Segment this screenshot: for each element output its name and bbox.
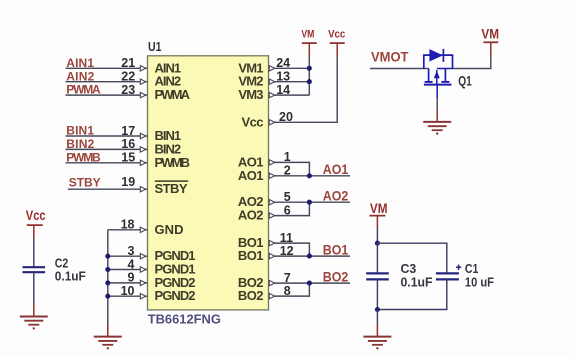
svg-text:BIN2: BIN2 — [66, 137, 94, 151]
svg-text:23: 23 — [121, 83, 135, 97]
wire pin24 VM1 — [269, 67, 310, 69]
svg-text:AIN2: AIN2 — [66, 69, 94, 83]
pin 6 — [269, 203, 291, 218]
IC U1 (TB6612FNG motor driver) body — [148, 56, 269, 310]
wire VMOT to Q1 source — [370, 68, 429, 70]
pin 18 — [121, 218, 146, 233]
wire junction to ground — [376, 310, 378, 324]
svg-text:AO2: AO2 — [323, 187, 349, 203]
wire pin2 AO1 net — [269, 175, 351, 177]
svg-text:VM: VM — [481, 26, 499, 41]
wire net STBY — [68, 188, 147, 190]
pin 3 — [128, 244, 146, 259]
svg-text:VM: VM — [301, 29, 314, 41]
U1 pin names (right column) — [238, 60, 264, 303]
svg-text:7: 7 — [284, 271, 291, 285]
pin 13 — [269, 70, 290, 85]
svg-text:BO1: BO1 — [323, 241, 349, 257]
pin 24 — [269, 56, 290, 71]
wire C3 down to bottom loop — [376, 279, 378, 309]
svg-text:BO1: BO1 — [238, 248, 264, 263]
svg-text:AO1: AO1 — [323, 161, 349, 177]
svg-text:BO2: BO2 — [238, 288, 264, 303]
pin 12 — [269, 244, 293, 259]
svg-text:PWMB: PWMB — [66, 150, 101, 164]
junction node AO1 — [307, 173, 312, 178]
wire Vcc vertical — [336, 56, 338, 123]
svg-text:STBY: STBY — [69, 175, 101, 189]
wire net PWMA — [66, 94, 148, 96]
junction node BO1 — [307, 254, 312, 259]
svg-text:18: 18 — [121, 218, 135, 232]
svg-text:16: 16 — [121, 137, 135, 151]
wire pin8 BO2 lower — [269, 283, 310, 296]
svg-text:PWMB: PWMB — [155, 155, 191, 170]
svg-text:VM3: VM3 — [238, 87, 263, 102]
pin 5 — [269, 190, 291, 205]
power symbol Vcc (top) — [330, 43, 345, 56]
pin 4 — [128, 257, 146, 272]
wire pin18 GND — [108, 229, 147, 231]
junction node VM/C3/C1 top — [375, 241, 380, 246]
wire VM down to junction — [376, 229, 378, 243]
wire pin1 AO1 upper — [269, 162, 310, 175]
wire pin5 AO2 net — [269, 201, 351, 203]
wire net AIN1 — [66, 67, 148, 69]
svg-text:0.1uF: 0.1uF — [401, 275, 433, 289]
pin 23 — [121, 83, 146, 98]
ground under C3/C1 — [363, 323, 391, 349]
svg-text:PWMA: PWMA — [155, 87, 191, 102]
svg-text:Q1: Q1 — [458, 74, 472, 89]
wire pin11 BO1 upper — [269, 243, 310, 256]
svg-text:Vcc: Vcc — [26, 208, 46, 223]
svg-text:22: 22 — [121, 70, 135, 84]
svg-text:21: 21 — [121, 56, 135, 70]
ground under Q1 gate — [423, 110, 451, 135]
plus sign of C1 — [456, 265, 461, 270]
svg-text:VMOT: VMOT — [371, 48, 409, 64]
pin 9 — [128, 271, 146, 286]
pin 8 — [269, 284, 291, 299]
svg-text:12: 12 — [280, 244, 294, 258]
wire pin20 Vcc — [269, 121, 338, 123]
svg-text:TB6612FNG: TB6612FNG — [148, 312, 221, 327]
junction node AO2 — [307, 200, 312, 205]
svg-text:2: 2 — [284, 164, 291, 178]
pin 14 — [269, 83, 290, 98]
pin 21 — [121, 56, 146, 71]
svg-text:10 uF: 10 uF — [465, 275, 494, 289]
pin 1 — [269, 150, 291, 165]
capacitor C1 (polarized) — [436, 273, 459, 279]
svg-text:U1: U1 — [148, 40, 162, 54]
wire pin7 BO2 net — [269, 282, 351, 284]
pin 15 — [121, 151, 146, 166]
wire pin6 AO2 lower — [269, 202, 310, 215]
pin 2 — [269, 164, 291, 179]
wire net PWMB — [66, 162, 148, 164]
power symbol VM (right, above Q1 drain) — [483, 42, 498, 56]
junction node VM pin24 — [307, 66, 312, 71]
wire pin14 VM3 — [269, 94, 310, 96]
ground under C2 — [20, 304, 48, 330]
wire Q1 drain to VM corner — [453, 56, 491, 68]
wire top loop to C1 — [377, 243, 446, 273]
wire pin10 PGND2 — [108, 295, 147, 297]
wire pin13 VM2 — [269, 81, 310, 83]
svg-text:PGND2: PGND2 — [155, 288, 196, 303]
svg-text:19: 19 — [121, 175, 135, 189]
junction node BO2 — [307, 281, 312, 286]
svg-text:11: 11 — [280, 231, 293, 245]
svg-text:10: 10 — [121, 284, 135, 298]
pin 20 — [269, 110, 293, 125]
pin 7 — [269, 271, 291, 286]
svg-text:GND: GND — [155, 222, 184, 237]
pin 16 — [121, 137, 146, 152]
wire Vcc to C2 — [33, 239, 35, 268]
svg-text:0.1uF: 0.1uF — [55, 269, 86, 283]
junction node at pin10 — [105, 294, 110, 299]
wire pin9 PGND2 — [108, 282, 147, 284]
U1 pin names (left column) — [155, 60, 196, 303]
svg-text:1: 1 — [284, 150, 291, 164]
wire junction down to C3 — [376, 243, 378, 273]
ground under IC GND bus — [94, 323, 122, 349]
pin 10 — [121, 284, 146, 299]
svg-text:PWMA: PWMA — [66, 83, 101, 97]
svg-text:C1: C1 — [465, 262, 479, 276]
svg-text:15: 15 — [121, 151, 135, 165]
svg-text:6: 6 — [284, 203, 291, 217]
svg-text:VM: VM — [370, 201, 388, 216]
svg-text:24: 24 — [276, 56, 290, 70]
svg-text:Vcc: Vcc — [242, 114, 264, 129]
svg-text:8: 8 — [284, 284, 291, 298]
svg-text:13: 13 — [276, 70, 290, 84]
wire GND bus vertical — [107, 230, 109, 336]
power symbol VM (bottom, above C3) — [369, 216, 385, 229]
wire pin12 BO1 net — [269, 255, 351, 257]
svg-text:Vcc: Vcc — [328, 29, 345, 41]
pin 22 — [121, 70, 146, 85]
wire C1 down to bottom loop — [377, 279, 446, 309]
svg-text:3: 3 — [128, 244, 135, 258]
svg-text:AO1: AO1 — [238, 168, 264, 183]
power symbol VM (top) — [302, 43, 317, 56]
junction node at pin3 — [105, 254, 110, 259]
junction node VM pin13 — [307, 79, 312, 84]
U1 STBY overline — [155, 180, 188, 182]
pin 11 — [269, 231, 293, 246]
transistor Q1 P-channel MOSFET with body diode — [423, 49, 453, 98]
wire VM vertical to pins — [308, 56, 310, 95]
power symbol Vcc (left, above C2) — [27, 225, 43, 238]
junction node at pin9 — [105, 280, 110, 285]
svg-text:4: 4 — [128, 257, 135, 271]
svg-text:9: 9 — [128, 271, 135, 285]
pin 17 — [121, 124, 146, 139]
wire net BIN1 — [66, 135, 148, 137]
svg-text:STBY: STBY — [155, 181, 188, 196]
junction node at pin4 — [105, 267, 110, 272]
svg-text:20: 20 — [279, 110, 293, 124]
wire net BIN2 — [66, 148, 148, 150]
svg-text:C3: C3 — [401, 262, 417, 276]
svg-text:AIN1: AIN1 — [66, 56, 94, 70]
capacitor C2 — [23, 267, 46, 272]
capacitor C3 — [366, 273, 389, 279]
wire pin3 PGND1 — [108, 255, 147, 257]
svg-text:BIN1: BIN1 — [66, 124, 94, 138]
wire Q1 gate to ground — [436, 98, 438, 110]
svg-text:AO2: AO2 — [238, 208, 264, 223]
svg-text:5: 5 — [284, 190, 291, 204]
svg-text:14: 14 — [276, 83, 290, 97]
svg-text:BO2: BO2 — [323, 268, 349, 284]
wire pin4 PGND1 — [108, 269, 147, 271]
svg-text:C2: C2 — [55, 257, 69, 271]
junction node bottom loop — [375, 307, 380, 312]
svg-text:17: 17 — [121, 124, 135, 138]
wire net AIN2 — [66, 81, 148, 83]
wire C2 to ground — [33, 272, 35, 303]
pin 19 — [121, 175, 146, 192]
